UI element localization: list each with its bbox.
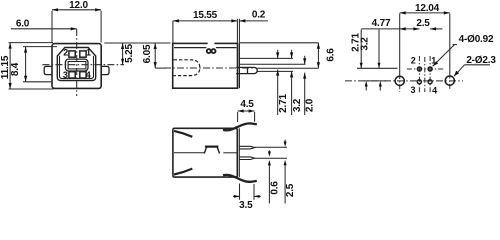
svg-text:4: 4 (432, 85, 437, 95)
svg-text:1: 1 (431, 55, 436, 65)
svg-text:4.77: 4.77 (372, 18, 391, 29)
svg-text:6.0: 6.0 (16, 19, 30, 30)
svg-text:4: 4 (86, 70, 91, 80)
svg-text:8.4: 8.4 (10, 62, 21, 76)
svg-text:12.04: 12.04 (415, 3, 440, 14)
svg-text:4-Ø0.92: 4-Ø0.92 (459, 34, 494, 45)
svg-text:2.0: 2.0 (305, 98, 316, 112)
svg-text:2.5: 2.5 (285, 183, 296, 197)
svg-text:3.5: 3.5 (239, 200, 253, 210)
svg-text:0.6: 0.6 (269, 181, 280, 195)
svg-text:2.5: 2.5 (416, 18, 430, 29)
svg-text:6.05: 6.05 (142, 44, 153, 63)
svg-text:3.2: 3.2 (292, 98, 303, 112)
svg-text:1: 1 (86, 48, 91, 58)
svg-text:2.71: 2.71 (278, 94, 289, 113)
svg-text:2-Ø2.3: 2-Ø2.3 (466, 55, 496, 66)
svg-text:3.2: 3.2 (360, 37, 371, 51)
svg-text:3: 3 (63, 70, 68, 80)
svg-text:3: 3 (410, 85, 415, 95)
svg-text:0.2: 0.2 (252, 9, 266, 20)
svg-text:6.6: 6.6 (325, 48, 336, 62)
svg-text:15.55: 15.55 (193, 10, 218, 21)
svg-text:5.25: 5.25 (124, 44, 135, 63)
svg-text:2: 2 (411, 56, 416, 66)
svg-text:12.0: 12.0 (69, 0, 88, 11)
svg-text:4.5: 4.5 (240, 99, 254, 110)
svg-text:2: 2 (63, 48, 68, 58)
